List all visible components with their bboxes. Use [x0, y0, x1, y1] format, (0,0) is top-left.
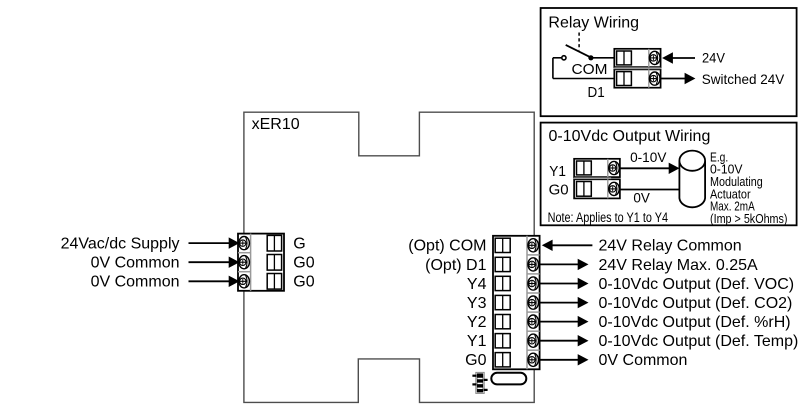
- wire arrow into G0: [189, 276, 240, 287]
- TB2 screw terminal Y3: [528, 296, 539, 309]
- TB2 screw terminal Y1: [528, 334, 539, 347]
- wire: left loop vertical: [552, 58, 554, 79]
- TB2 wire clamp G0: [495, 353, 510, 367]
- 0-10V box screw Y1: [609, 161, 620, 174]
- TB2 cell divider shadow: [527, 273, 540, 275]
- svg-text:0V Common: 0V Common: [91, 274, 180, 291]
- TB2 cell divider shadow: [527, 330, 540, 332]
- svg-text:0V: 0V: [633, 190, 650, 205]
- svg-text:Y4: Y4: [467, 276, 487, 293]
- wire arrow out of D1: [540, 259, 589, 270]
- svg-text:G0: G0: [293, 255, 314, 272]
- 0-10V box terminal G0: [574, 179, 620, 198]
- svg-text:G: G: [293, 236, 305, 253]
- TB2 screw terminal D1: [528, 258, 539, 271]
- svg-text:(Opt) D1: (Opt) D1: [425, 257, 486, 274]
- wire arrow Switched 24V out: [661, 73, 696, 84]
- TB2 wire clamp Y4: [495, 276, 510, 290]
- svg-text:0-10Vdc Output (Def. %rH): 0-10Vdc Output (Def. %rH): [599, 314, 791, 331]
- svg-text:24Vac/dc Supply: 24Vac/dc Supply: [61, 236, 180, 253]
- TB2 wire clamp D1: [495, 257, 510, 271]
- relay pivot (open circle): [562, 56, 566, 60]
- TB1 wire clamp G: [267, 235, 281, 251]
- wire arrow out of Y4: [540, 278, 589, 289]
- 0-10Vdc Output Wiring detail box: [541, 123, 797, 226]
- TB2 screw column separator: [526, 236, 528, 369]
- TB2 cell divider shadow: [527, 349, 540, 351]
- status LED window (pill): [491, 373, 526, 385]
- 0-10V box clamp Y1: [577, 161, 592, 175]
- 0-10V box screw G0: [609, 182, 620, 195]
- svg-text:Switched 24V: Switched 24V: [702, 71, 785, 87]
- wire: loop bottom to D1: [553, 78, 614, 80]
- TB1 screw terminal G0: [239, 256, 250, 269]
- svg-text:Relay Wiring: Relay Wiring: [548, 15, 639, 32]
- TB2 screw terminal COM: [528, 239, 539, 252]
- svg-text:COM: COM: [572, 61, 608, 78]
- 0-10V box terminal Y1: [574, 159, 620, 177]
- relay box terminal D1: [614, 69, 660, 87]
- svg-text:0-10Vdc Output Wiring: 0-10Vdc Output Wiring: [549, 128, 711, 145]
- wire arrow into COM (24V relay common): [542, 240, 593, 251]
- svg-text:Y1: Y1: [467, 333, 487, 350]
- svg-text:G0: G0: [293, 274, 314, 291]
- wire 0V to actuator: [620, 189, 681, 191]
- TB1 screw terminal G0: [239, 275, 250, 288]
- TB2 wire clamp Y1: [495, 334, 510, 348]
- TB1 cell divider shadow: [238, 271, 251, 273]
- 0-10V box clamp G0: [577, 182, 592, 197]
- wire arrow out of Y3: [540, 297, 589, 308]
- TB2 cell divider shadow: [527, 254, 540, 256]
- relay switch arm: [566, 45, 591, 57]
- wire arrow out of Y2: [540, 316, 589, 327]
- svg-text:0-10Vdc Output (Def. Temp): 0-10Vdc Output (Def. Temp): [599, 333, 799, 350]
- wire: pivot stub: [553, 57, 562, 59]
- relay box screw D1: [649, 72, 660, 85]
- svg-text:Y3: Y3: [467, 295, 487, 312]
- TB2 cell divider shadow: [527, 292, 540, 294]
- svg-text:xER10: xER10: [252, 116, 300, 133]
- TB2 cell divider shadow: [527, 311, 540, 313]
- jumper header J1: [472, 372, 487, 393]
- relay contact node (dot): [588, 55, 593, 60]
- TB2 wire clamp Y2: [495, 315, 510, 329]
- svg-text:D1: D1: [588, 85, 605, 101]
- shadow between 0-10V terminals: [574, 177, 611, 179]
- TB1 wire clamp G0: [267, 255, 281, 271]
- wire arrow 24V in: [662, 52, 695, 63]
- wire arrow 0-10V to actuator: [620, 163, 680, 174]
- relay box clamp D1: [617, 72, 632, 86]
- actuator cylinder: [679, 151, 705, 208]
- wire arrow into G: [189, 237, 240, 248]
- TB1 wire clamp G0: [267, 274, 281, 290]
- svg-text:0V Common: 0V Common: [91, 255, 180, 272]
- relay box clamp COM: [617, 51, 632, 65]
- relay actuation dashed line: [578, 33, 580, 51]
- left power terminal block TB1: [238, 234, 284, 291]
- svg-text:24V Relay Max. 0.25A: 24V Relay Max. 0.25A: [599, 257, 759, 274]
- TB2 wire clamp COM: [495, 238, 510, 252]
- TB1 screw column separator: [250, 234, 252, 291]
- wire: contact to COM terminal: [591, 57, 614, 59]
- svg-text:(Imp > 5kOhms): (Imp > 5kOhms): [710, 211, 788, 226]
- TB2 screw terminal G0: [528, 353, 539, 366]
- TB2 wire clamp Y3: [495, 295, 510, 309]
- wire arrow out of Y1: [540, 335, 589, 346]
- svg-text:0-10V: 0-10V: [630, 150, 666, 165]
- TB2 screw terminal Y2: [528, 315, 539, 328]
- wire arrow out of G0: [540, 354, 589, 365]
- wire arrow into G0: [189, 257, 240, 268]
- shadow between relay terminals: [614, 67, 660, 69]
- svg-text:G0: G0: [465, 352, 486, 369]
- svg-text:Y2: Y2: [467, 314, 487, 331]
- svg-text:0-10Vdc Output (Def. VOC): 0-10Vdc Output (Def. VOC): [599, 276, 795, 293]
- Relay Wiring detail box: [541, 8, 797, 116]
- relay box screw COM: [649, 51, 660, 64]
- TB2 screw terminal Y4: [528, 277, 539, 290]
- TB1 cell divider shadow: [238, 252, 251, 254]
- svg-text:Note: Applies to Y1 to Y4: Note: Applies to Y1 to Y4: [548, 210, 669, 225]
- TB1 screw terminal G: [239, 237, 250, 250]
- svg-text:0V Common: 0V Common: [599, 352, 688, 369]
- xER10 device outline: [244, 112, 534, 402]
- right output terminal block TB2: [493, 236, 540, 369]
- relay box terminal COM: [614, 49, 660, 67]
- svg-text:Y1: Y1: [549, 164, 566, 180]
- svg-text:(Opt) COM: (Opt) COM: [408, 238, 486, 255]
- svg-text:24V Relay Common: 24V Relay Common: [599, 238, 742, 255]
- svg-text:0-10Vdc Output (Def. CO2): 0-10Vdc Output (Def. CO2): [599, 295, 793, 312]
- svg-text:24V: 24V: [702, 50, 726, 66]
- svg-text:G0: G0: [549, 182, 569, 198]
